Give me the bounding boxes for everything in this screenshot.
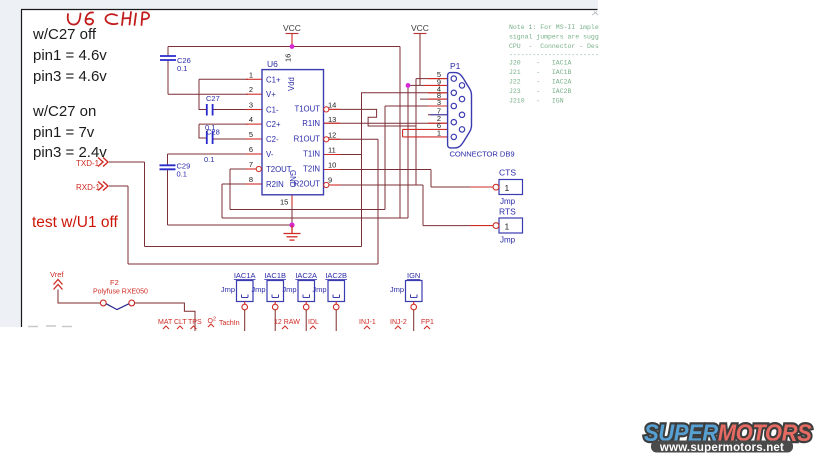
bottom net label chevrons bbox=[163, 324, 430, 329]
chip inverter bubble pin12 bbox=[324, 137, 329, 142]
svg-text:T1IN: T1IN bbox=[303, 150, 320, 159]
stub DB9 pin5 bbox=[428, 78, 448, 80]
junction dot ground bbox=[289, 222, 294, 227]
stub pin8 bbox=[246, 183, 262, 185]
svg-text:16: 16 bbox=[284, 54, 293, 62]
svg-text:VCC: VCC bbox=[411, 23, 429, 33]
svg-text:T2IN: T2IN bbox=[303, 165, 320, 174]
svg-text:J22 - IAC2A: J22 - IAC2A bbox=[509, 79, 572, 86]
svg-text:10: 10 bbox=[328, 161, 336, 170]
stub RTS bbox=[470, 225, 493, 227]
junction dot VCC2/DB9-9 bbox=[406, 83, 411, 88]
wire C29 bottom leg bbox=[167, 170, 169, 225]
svg-text:pin1 = 4.6v: pin1 = 4.6v bbox=[33, 47, 107, 64]
svg-text:R2IN: R2IN bbox=[266, 180, 284, 189]
svg-text:IAC1A: IAC1A bbox=[234, 271, 256, 280]
stub pin1 bbox=[246, 78, 262, 80]
connector DB9 pins right column bbox=[459, 83, 464, 132]
svg-text:C27: C27 bbox=[206, 94, 220, 103]
VCC symbol 2 bbox=[411, 23, 429, 85]
svg-text:C1+: C1+ bbox=[266, 75, 281, 84]
chip inverter bubble pin7 bbox=[256, 166, 261, 171]
wire DB9 pin7 row bbox=[428, 114, 448, 116]
DB9 pin7 blue stub bbox=[430, 114, 448, 116]
wire C28 left leg bbox=[199, 124, 207, 138]
svg-text:J20 - IAC1A: J20 - IAC1A bbox=[509, 60, 572, 67]
svg-text:CLT: CLT bbox=[174, 319, 187, 326]
svg-text:pin1 = 7v: pin1 = 7v bbox=[33, 124, 95, 141]
svg-text:14: 14 bbox=[328, 101, 336, 110]
wire trunk x361 bbox=[361, 93, 363, 247]
svg-text:TachIn: TachIn bbox=[219, 320, 240, 327]
svg-text:1: 1 bbox=[437, 129, 441, 138]
svg-text:IGN: IGN bbox=[407, 271, 420, 280]
wire C26 top bbox=[167, 47, 169, 56]
corner artifact bbox=[592, 12, 598, 16]
stub pin10 bbox=[324, 169, 341, 171]
wire CTS horizontal bbox=[431, 186, 470, 188]
connector DB9 P1 body bbox=[448, 73, 472, 148]
wire V- pin6 bbox=[168, 153, 249, 155]
svg-text:VCC: VCC bbox=[283, 23, 301, 33]
jumper IAC1A bbox=[221, 271, 256, 331]
svg-text:TPS: TPS bbox=[188, 319, 202, 326]
bright red pin stubs bbox=[246, 34, 493, 226]
svg-text:P1: P1 bbox=[450, 61, 461, 71]
stub pin16 vcc bbox=[291, 34, 293, 48]
wire T1IN to trunk bbox=[324, 154, 362, 156]
wire DB9 pin5 row bbox=[416, 78, 448, 80]
capacitor C28 bbox=[204, 128, 220, 165]
wire TXD horizontal bbox=[109, 161, 145, 163]
stub pin11 bbox=[324, 154, 341, 156]
svg-text:5: 5 bbox=[249, 130, 253, 139]
svg-text:www.supermotors.net: www.supermotors.net bbox=[659, 442, 784, 454]
stub pin9 bbox=[329, 184, 340, 186]
fuse F2 bbox=[93, 278, 195, 331]
svg-text:C28: C28 bbox=[206, 128, 220, 137]
stub DB9 pin3 bbox=[428, 105, 448, 107]
svg-text:INJ-1: INJ-1 bbox=[359, 319, 376, 326]
jumper CTS bbox=[493, 168, 522, 207]
wire C27 right to C1- pin3 bbox=[213, 109, 248, 111]
wire DB9 pin8 row bbox=[420, 98, 448, 100]
svg-text:Polyfuse RXE050: Polyfuse RXE050 bbox=[93, 289, 148, 296]
ground symbol bbox=[284, 225, 301, 240]
svg-text:C1-: C1- bbox=[266, 106, 279, 115]
svg-text:RXD-1: RXD-1 bbox=[76, 183, 101, 192]
stub pin13 bbox=[324, 122, 341, 124]
svg-text:C2-: C2- bbox=[266, 135, 279, 144]
capacitor C26 bbox=[160, 56, 191, 73]
svg-text:8: 8 bbox=[249, 175, 253, 184]
svg-text:-----------------------: ----------------------- bbox=[509, 52, 599, 59]
wire C27 left leg bbox=[199, 79, 207, 109]
chip pin numbers left bbox=[249, 70, 253, 184]
border frame left bbox=[21, 10, 23, 328]
note text green bbox=[509, 24, 599, 105]
svg-text:2: 2 bbox=[249, 85, 253, 94]
wire riser x385 pin3 to T2OUT rail bbox=[384, 106, 386, 210]
stub pin15 bbox=[291, 195, 293, 206]
svg-text:6: 6 bbox=[249, 145, 253, 154]
wire R2IN left bbox=[222, 183, 248, 185]
svg-text:RTS: RTS bbox=[499, 207, 516, 217]
VCC symbol 1 bbox=[283, 23, 301, 34]
wire T2IN bbox=[324, 169, 432, 171]
svg-text:IAC2A: IAC2A bbox=[295, 271, 317, 280]
border frame top bbox=[21, 9, 598, 11]
stub DB9 pin4 bbox=[428, 92, 448, 94]
stub pin2 bbox=[246, 93, 262, 95]
svg-text:Jmp: Jmp bbox=[390, 285, 404, 294]
svg-text:w/C27 off: w/C27 off bbox=[32, 26, 97, 43]
svg-text:0.1: 0.1 bbox=[204, 155, 214, 164]
logo SUPERMOTORS bbox=[644, 419, 812, 446]
junction dot VCC1 bbox=[290, 44, 295, 49]
logo url bar bbox=[651, 441, 793, 453]
faint cut text remnants bottom left bbox=[28, 325, 72, 328]
wire C28 right to C2- pin5 bbox=[213, 138, 248, 140]
svg-text:11: 11 bbox=[328, 146, 336, 155]
svg-text:3: 3 bbox=[437, 98, 441, 107]
net label TXD-1 bbox=[76, 158, 108, 169]
svg-text:0.1: 0.1 bbox=[177, 64, 187, 73]
svg-text:U6: U6 bbox=[267, 59, 278, 69]
svg-text:13: 13 bbox=[328, 115, 336, 124]
wire C2+ pin4 bbox=[199, 123, 248, 125]
svg-text:CPU - Connector - Des: CPU - Connector - Des bbox=[509, 43, 599, 50]
svg-text:J210 - IGN: J210 - IGN bbox=[509, 98, 564, 105]
connector DB9 pins left column bbox=[451, 76, 456, 140]
svg-text:12 RAW: 12 RAW bbox=[274, 319, 300, 326]
connector pin numbers bbox=[437, 70, 441, 138]
net label RXD-1 bbox=[76, 182, 108, 193]
svg-text:test w/U1 off: test w/U1 off bbox=[32, 214, 119, 231]
svg-text:Jmp: Jmp bbox=[312, 285, 326, 294]
svg-text:FP1: FP1 bbox=[421, 319, 434, 326]
svg-text:signal jumpers are sugg: signal jumpers are sugg bbox=[509, 34, 599, 41]
svg-text:GND: GND bbox=[288, 170, 297, 188]
svg-text:INJ-2: INJ-2 bbox=[390, 319, 407, 326]
svg-text:Jmp: Jmp bbox=[251, 285, 265, 294]
svg-text:4: 4 bbox=[249, 115, 253, 124]
stub DB9 pin6 jog bbox=[403, 129, 448, 137]
stub CTS bbox=[470, 186, 493, 188]
jumper IAC2B bbox=[312, 271, 347, 331]
wire VCC1 drop / trunk x400 bbox=[399, 47, 401, 219]
wire DB9 pin9 row bbox=[408, 84, 424, 86]
wire RXD bottom rail bbox=[128, 263, 378, 265]
svg-text:Vdd: Vdd bbox=[287, 77, 296, 91]
jumper IAC2A bbox=[282, 271, 317, 331]
svg-text:C2+: C2+ bbox=[266, 120, 281, 129]
svg-text:V-: V- bbox=[266, 150, 274, 159]
wire VCC1 rail bbox=[168, 46, 400, 48]
svg-text:Jmp: Jmp bbox=[500, 197, 516, 206]
op-amp ... chip U6 body bbox=[262, 70, 324, 195]
wire C1+ pin1 bbox=[199, 78, 248, 80]
wire R2OUT row bbox=[327, 184, 423, 186]
wire R2OUT drop to RTS bbox=[422, 185, 424, 226]
bottom net labels red bbox=[158, 317, 434, 328]
wire R2IN pullup rail bbox=[222, 217, 408, 219]
wire T2IN drop to CTS bbox=[430, 170, 432, 188]
jumper RTS bbox=[493, 207, 522, 245]
svg-text:1: 1 bbox=[505, 183, 510, 193]
wire DB9 pin3 row bbox=[385, 105, 448, 107]
wire R1OUT drop to RXD rail bbox=[377, 139, 379, 264]
svg-text:J21 - IAC1B: J21 - IAC1B bbox=[509, 69, 572, 76]
jumper IAC1B bbox=[251, 271, 286, 331]
svg-text:1: 1 bbox=[505, 222, 510, 232]
svg-text:Jmp: Jmp bbox=[500, 236, 516, 245]
svg-text:R1OUT: R1OUT bbox=[294, 135, 321, 144]
wire R2IN drop bbox=[221, 184, 223, 218]
wire R1IN to DB9 pin2 bbox=[324, 122, 448, 124]
wire RXD vertical bbox=[127, 186, 129, 264]
svg-text:1: 1 bbox=[249, 70, 253, 79]
stub pin3 bbox=[246, 109, 262, 111]
svg-text:Jmp: Jmp bbox=[282, 285, 296, 294]
svg-text:F2: F2 bbox=[110, 278, 119, 287]
stub pin12 bbox=[329, 138, 340, 140]
svg-text:3: 3 bbox=[249, 101, 253, 110]
stub pin7 bbox=[246, 168, 256, 170]
wire TXD vertical bbox=[144, 162, 146, 247]
chip inverter bubble pin9 bbox=[324, 182, 329, 187]
svg-text:Jmp: Jmp bbox=[221, 285, 235, 294]
svg-text:R1IN: R1IN bbox=[302, 119, 320, 128]
light margin strip left bbox=[0, 9, 21, 327]
capacitor C29 bbox=[160, 162, 191, 179]
chip inverter bubble pin14 bbox=[324, 107, 329, 112]
wire R1OUT bbox=[327, 138, 378, 140]
svg-text:T2OUT: T2OUT bbox=[266, 165, 292, 174]
wire GND rail bbox=[168, 224, 293, 226]
wire T1OUT Z-jog bbox=[327, 109, 416, 126]
svg-text:MAT: MAT bbox=[158, 319, 173, 326]
wire RXD horizontal bbox=[109, 185, 128, 187]
svg-text:IAC1B: IAC1B bbox=[264, 271, 286, 280]
jumper IGN bbox=[390, 271, 422, 331]
svg-text:J23 - IAC2B: J23 - IAC2B bbox=[509, 88, 572, 95]
wire pin15 to gnd bbox=[291, 195, 293, 225]
svg-text:w/C27 on: w/C27 on bbox=[32, 103, 96, 120]
light margin strip top bbox=[0, 0, 598, 9]
stub pin14 bbox=[329, 108, 340, 110]
stub pin4 bbox=[246, 123, 262, 125]
wire riser to DB9 pin5 bbox=[415, 79, 417, 185]
annotation text block 1 bbox=[32, 26, 107, 161]
svg-text:pin3 = 4.6v: pin3 = 4.6v bbox=[33, 68, 107, 85]
svg-text:CONNECTOR DB9: CONNECTOR DB9 bbox=[450, 150, 515, 159]
power symbol Vref bbox=[50, 270, 100, 303]
stub DB9 pin9 bbox=[424, 84, 448, 86]
capacitor C27 bbox=[205, 94, 220, 132]
chip pin numbers right bbox=[328, 101, 336, 185]
svg-text:7: 7 bbox=[249, 160, 253, 169]
svg-text:IDL: IDL bbox=[308, 319, 319, 326]
wire DB9 pin4 row bbox=[361, 92, 448, 94]
stub DB9 pin2 bbox=[428, 122, 448, 124]
svg-text:Vref: Vref bbox=[50, 270, 64, 279]
svg-text:12: 12 bbox=[328, 131, 336, 140]
wire C26 bottom to V+ bbox=[167, 61, 169, 95]
wire bottom rail TXD net bbox=[145, 246, 362, 248]
stub pin6 bbox=[246, 153, 262, 155]
svg-text:T1OUT: T1OUT bbox=[294, 105, 320, 114]
wire RTS horizontal bbox=[423, 225, 470, 227]
wire V+ pin2 bbox=[168, 93, 248, 95]
svg-text:TXD-1: TXD-1 bbox=[76, 159, 100, 168]
chip pin names right bbox=[294, 105, 321, 189]
chip pin names left bbox=[266, 75, 292, 189]
wire T2OUT bottom rail bbox=[230, 209, 385, 211]
wire C29 top leg bbox=[167, 154, 169, 165]
wire T2OUT left bbox=[230, 168, 254, 170]
svg-text:CTS: CTS bbox=[499, 168, 516, 178]
wire T2OUT drop bbox=[229, 169, 231, 210]
stub pin5 bbox=[246, 138, 262, 140]
stub DB9 pin8 bbox=[428, 98, 448, 100]
svg-text:15: 15 bbox=[280, 198, 288, 207]
handwritten note U6 CHIP bbox=[68, 12, 149, 25]
wire VCC2 drop bbox=[407, 85, 409, 218]
svg-text:IAC2B: IAC2B bbox=[325, 271, 347, 280]
svg-text:Note 1: For MS-II imple: Note 1: For MS-II imple bbox=[509, 24, 599, 31]
svg-text:V+: V+ bbox=[266, 90, 276, 99]
svg-text:0.1: 0.1 bbox=[177, 170, 187, 179]
